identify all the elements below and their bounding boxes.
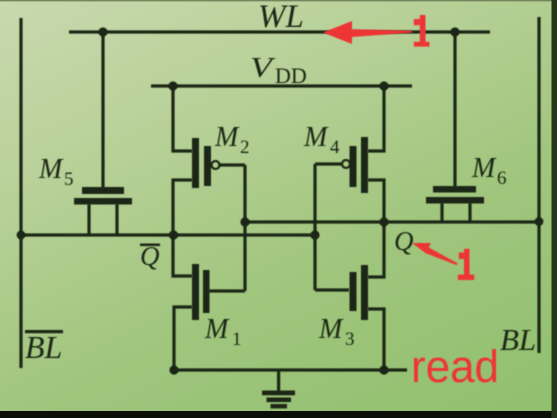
annotation arrow on WL bbox=[323, 21, 412, 44]
transistor M4 channel bbox=[361, 137, 368, 193]
wire M1 source to ground rail bbox=[174, 307, 192, 370]
svg-text:M: M bbox=[204, 314, 230, 345]
label node QB bbox=[140, 241, 160, 271]
junction dot WL-M5 bbox=[98, 27, 107, 36]
border right bbox=[552, 0, 557, 418]
wire VDD rail bbox=[151, 84, 412, 87]
wire BL bit line right bbox=[537, 17, 540, 353]
junction dot VDD-M4 bbox=[379, 81, 388, 90]
transistor M3 channel bbox=[361, 265, 368, 320]
wire M5 left stub bbox=[87, 204, 90, 235]
svg-text:2: 2 bbox=[240, 137, 250, 158]
svg-text:5: 5 bbox=[64, 169, 74, 190]
svg-text:6: 6 bbox=[497, 168, 507, 189]
junction dot WL-M6 bbox=[450, 27, 459, 36]
wire VDD to M2 source bbox=[173, 86, 192, 151]
transistor M2 gate bar bbox=[204, 146, 211, 186]
wire node Q horizontal bbox=[245, 220, 539, 223]
junction dot node Q bbox=[379, 217, 388, 226]
svg-text:BL: BL bbox=[25, 329, 62, 365]
border bottom bbox=[0, 411, 557, 418]
svg-text:M: M bbox=[471, 153, 497, 184]
wire WL word line bbox=[69, 30, 490, 33]
transistor M1 channel bbox=[192, 264, 199, 320]
junction dot ground M3 bbox=[379, 365, 388, 374]
label VDD bbox=[250, 53, 307, 88]
transistor M4 pmos bubble bbox=[342, 160, 350, 168]
wire M2 gate lead bbox=[219, 163, 245, 166]
svg-text:3: 3 bbox=[345, 329, 355, 350]
wire node QB to M1 drain bbox=[173, 235, 192, 276]
svg-text:BL: BL bbox=[500, 322, 536, 357]
junction dot node QB bbox=[169, 230, 178, 239]
transistor M2 pmos bubble bbox=[212, 161, 220, 169]
svg-text:Q: Q bbox=[394, 226, 414, 256]
svg-text:read: read bbox=[411, 341, 499, 392]
label M5 bbox=[38, 154, 74, 190]
label BL bbox=[500, 322, 536, 357]
svg-text:M: M bbox=[38, 154, 64, 185]
wire VDD to M4 source bbox=[368, 86, 384, 151]
wire M6 gate from WL bbox=[453, 32, 456, 187]
wire BLB bit line left bbox=[19, 18, 22, 368]
svg-text:1: 1 bbox=[232, 329, 242, 350]
wire M3 gate lead bbox=[315, 288, 349, 291]
svg-text:M: M bbox=[318, 314, 344, 345]
junction dot gate cross left bbox=[240, 217, 249, 226]
wire M2 M1 gate vertical bbox=[243, 165, 246, 291]
transistor M2 channel bbox=[192, 138, 199, 188]
annotation read bbox=[411, 341, 499, 392]
svg-text:M: M bbox=[214, 122, 240, 153]
wire M3 source to ground rail bbox=[368, 309, 384, 370]
svg-text:4: 4 bbox=[330, 137, 340, 158]
ground symbol bbox=[262, 370, 295, 408]
transistor M5 gate bar bbox=[82, 187, 124, 194]
svg-text:M: M bbox=[303, 122, 329, 153]
label M1 bbox=[204, 314, 242, 350]
junction dot ground left bbox=[169, 365, 178, 374]
svg-text:V: V bbox=[250, 53, 276, 84]
wire M4 M3 gate vertical bbox=[313, 164, 316, 290]
annotation arrow at Q bbox=[412, 243, 458, 265]
label M2 bbox=[214, 122, 250, 158]
transistor M6 channel bbox=[426, 197, 484, 204]
transistor M1 gate bar bbox=[203, 270, 210, 313]
label M6 bbox=[471, 153, 507, 189]
junction dot VDD-M2 bbox=[168, 81, 177, 90]
wire ground rail bbox=[174, 368, 407, 371]
svg-text:DD: DD bbox=[275, 63, 307, 88]
wire M1 gate lead bbox=[209, 289, 245, 292]
border top edge line bbox=[0, 0, 557, 1]
transistor M4 gate bar bbox=[350, 146, 357, 187]
junction dot BLB node bbox=[17, 231, 26, 240]
transistor M3 gate bar bbox=[350, 272, 357, 311]
annotation 1 on WL bbox=[414, 15, 430, 47]
junction dot gate cross right bbox=[310, 230, 319, 239]
wire M4 gate lead bbox=[315, 162, 342, 165]
svg-text:WL: WL bbox=[258, 0, 304, 35]
wire node Q to M3 drain bbox=[368, 222, 384, 277]
label node Q bbox=[394, 226, 414, 256]
transistor M5 channel bbox=[74, 198, 132, 205]
wire M6 left stub bbox=[440, 203, 443, 222]
transistor M6 gate bar bbox=[433, 186, 476, 193]
wire M4 drain to node Q bbox=[368, 180, 384, 222]
label M4 bbox=[303, 122, 340, 158]
label WL bbox=[258, 0, 304, 35]
wire M5 right stub bbox=[115, 204, 118, 235]
annotation 1 at Q bbox=[458, 249, 474, 280]
wire node QB horizontal bbox=[21, 233, 315, 236]
junction dot BL node bbox=[535, 217, 544, 226]
wire M5 gate from WL bbox=[101, 32, 104, 188]
label M3 bbox=[318, 314, 355, 350]
wire M2 drain to node QB bbox=[173, 180, 192, 235]
wire M6 right stub bbox=[468, 203, 471, 222]
label BLB bbox=[25, 329, 63, 365]
